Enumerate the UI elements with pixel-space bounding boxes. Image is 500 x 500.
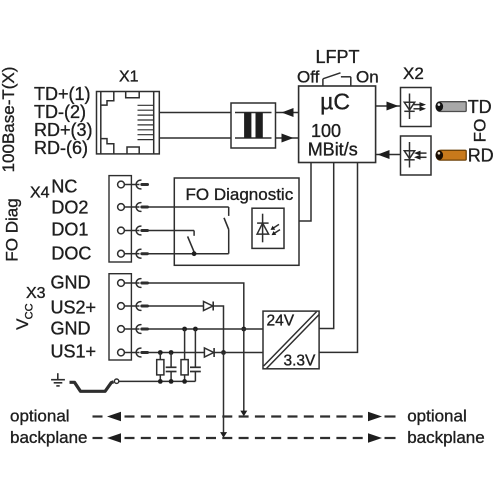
wire US2+ after diode xyxy=(213,306,223,353)
connector X4 body xyxy=(109,176,131,262)
wire X1 to transformer top xyxy=(159,112,231,114)
svg-text:CC: CC xyxy=(24,303,36,319)
wire US1+ xyxy=(148,352,204,354)
wire transformer to uC top xyxy=(276,112,299,114)
svg-text:Off: Off xyxy=(297,68,320,87)
svg-text:µC: µC xyxy=(320,89,350,115)
svg-text:3.3V: 3.3V xyxy=(284,353,317,370)
svg-text:DO2: DO2 xyxy=(51,198,88,218)
wire US1+ after diode to converter xyxy=(214,352,263,354)
svg-text:RD-(6): RD-(6) xyxy=(34,138,88,158)
node junction C1 tap xyxy=(169,350,174,355)
switch S1 LFPT xyxy=(323,73,351,86)
svg-text:100: 100 xyxy=(311,121,341,141)
wire optional bus row xyxy=(93,415,396,417)
svg-text:100Base-T(X): 100Base-T(X) xyxy=(0,67,18,173)
svg-text:24V: 24V xyxy=(267,313,295,330)
svg-text:X3: X3 xyxy=(26,285,46,302)
wire RD fiber cable xyxy=(436,150,467,160)
svg-text:RD: RD xyxy=(468,146,494,166)
wire shield trace xyxy=(70,382,114,392)
wire GND down to optional row xyxy=(243,329,245,411)
capacitor C1 xyxy=(166,353,177,382)
svg-text:DO1: DO1 xyxy=(51,220,88,240)
svg-text:GND: GND xyxy=(51,318,91,338)
svg-text:optional: optional xyxy=(407,407,467,426)
svg-text:TD-(2): TD-(2) xyxy=(34,102,86,122)
svg-text:X2: X2 xyxy=(403,64,424,83)
node junction row C1 xyxy=(169,379,174,384)
node junction DO1-DOC xyxy=(192,251,197,256)
resistor R2 xyxy=(181,329,188,381)
block DC converter 24V 3.3V xyxy=(263,311,319,369)
svg-text:US1+: US1+ xyxy=(51,341,97,361)
connector X4 pin 2 DO2 xyxy=(118,203,148,212)
wire GND pin3 to converter xyxy=(148,328,263,330)
svg-text:RD+(3): RD+(3) xyxy=(34,120,93,140)
transformer T1 xyxy=(231,103,276,148)
LED U2 fiber optic transmitter xyxy=(401,88,432,127)
wire DOC common xyxy=(148,253,228,255)
photodiode U4 diagnostic monitor icon xyxy=(252,208,284,248)
node junction row R2 xyxy=(182,379,187,384)
wire DO1 xyxy=(148,230,194,232)
svg-text:TD+(1): TD+(1) xyxy=(34,84,91,104)
wire DO2 xyxy=(148,206,228,208)
wire FO Diagnostic to uC xyxy=(299,163,311,222)
wire uC to converter second xyxy=(319,163,357,353)
node junction GND xyxy=(241,327,246,332)
diode D2 US2+ xyxy=(204,302,214,311)
wire GND pin1 xyxy=(148,283,244,329)
svg-text:NC: NC xyxy=(51,176,77,196)
connector X3 pin 2 US2+ xyxy=(118,302,148,311)
block FO Diagnostic box xyxy=(174,178,299,265)
diode D1 US1+ xyxy=(204,348,214,357)
node junction row R1 xyxy=(158,379,163,384)
svg-text:X4: X4 xyxy=(30,185,50,202)
svg-text:FO Diagnostic: FO Diagnostic xyxy=(186,185,294,204)
connector X1 RJ45 jack xyxy=(97,92,160,154)
wire backplane bus row xyxy=(93,437,396,439)
svg-text:MBit/s: MBit/s xyxy=(308,140,358,160)
node junction R1 tap xyxy=(158,350,163,355)
connector X3 pin 3 GND xyxy=(118,325,148,334)
node junction C2 tap xyxy=(193,327,198,332)
wire US2+ xyxy=(148,305,203,307)
wire uC to X2 transmitter xyxy=(376,105,401,107)
svg-text:backplane: backplane xyxy=(407,428,485,447)
switch S2 DO2 contact xyxy=(224,207,229,254)
svg-text:TD: TD xyxy=(468,97,492,117)
wire TD fiber cable xyxy=(436,102,467,112)
wire supply down to backplane row xyxy=(223,353,225,434)
wire uC to converter 3.3V xyxy=(319,163,334,329)
svg-text:US2+: US2+ xyxy=(51,297,97,317)
svg-text:FO: FO xyxy=(471,119,490,143)
node junction R2 tap xyxy=(182,327,187,332)
svg-text:backplane: backplane xyxy=(10,428,88,447)
connector X3 pin 1 GND xyxy=(118,279,148,288)
op-amp U1 microcontroller box xyxy=(299,86,376,163)
connector X3 body xyxy=(109,274,131,360)
svg-text:On: On xyxy=(356,68,379,87)
svg-text:X1: X1 xyxy=(119,69,139,86)
resistor R1 xyxy=(157,353,164,382)
svg-text:FO Diag: FO Diag xyxy=(3,198,22,261)
svg-text:DOC: DOC xyxy=(51,244,91,264)
capacitor C2 xyxy=(190,329,201,381)
wire X1 to transformer bottom xyxy=(159,137,231,139)
svg-text:GND: GND xyxy=(51,272,91,292)
connector X4 pin 1 NC xyxy=(118,180,148,189)
wire X2 receiver to uC xyxy=(376,154,401,156)
node junction US supply xyxy=(221,350,226,355)
connector X4 pin 4 DOC xyxy=(118,249,148,258)
svg-text:LFPT: LFPT xyxy=(316,47,360,67)
connector X4 pin 3 DO1 xyxy=(118,226,148,235)
svg-text:optional: optional xyxy=(10,407,70,426)
photodiode U3 fiber optic receiver xyxy=(401,136,432,175)
ground earth symbol xyxy=(51,373,65,386)
connector X3 pin 4 US1+ xyxy=(118,348,148,357)
wire filter common row xyxy=(119,380,196,382)
node shield hook xyxy=(114,379,118,383)
switch S3 DO1 contact xyxy=(188,231,195,253)
wire transformer to uC bottom xyxy=(276,137,299,139)
